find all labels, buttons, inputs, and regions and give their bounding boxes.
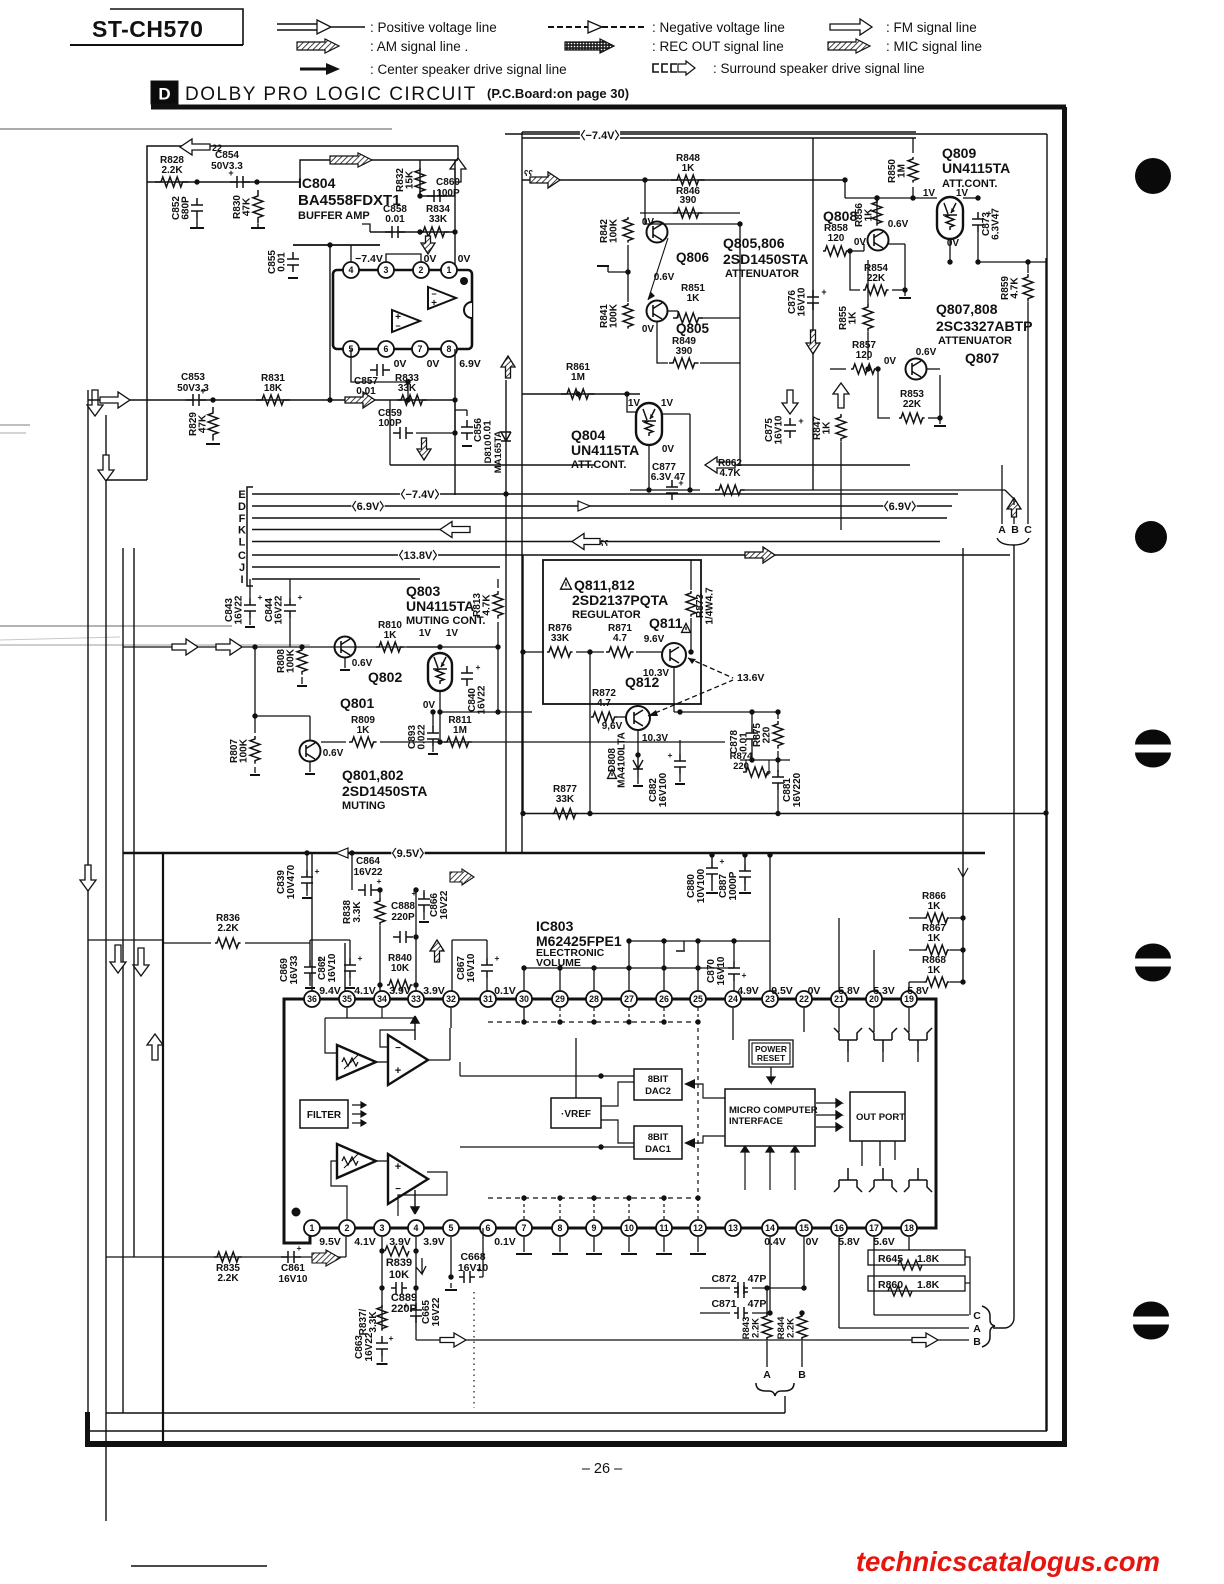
svg-text:0.6V: 0.6V bbox=[916, 347, 937, 358]
svg-text:0.4V: 0.4V bbox=[764, 1236, 786, 1248]
svg-text:+: + bbox=[412, 888, 417, 898]
svg-text:2.2K: 2.2K bbox=[786, 1318, 797, 1338]
svg-text:220: 220 bbox=[733, 761, 749, 772]
svg-text:13.6V: 13.6V bbox=[737, 672, 764, 684]
svg-text:10K: 10K bbox=[391, 963, 410, 974]
svg-text:+: + bbox=[315, 866, 320, 876]
svg-text:3: 3 bbox=[380, 1223, 385, 1233]
svg-text:8: 8 bbox=[558, 1223, 563, 1233]
svg-text:1V: 1V bbox=[628, 398, 641, 409]
svg-text:+: + bbox=[476, 662, 481, 672]
svg-text:: REC OUT signal line: : REC OUT signal line bbox=[652, 39, 784, 54]
svg-text:K: K bbox=[238, 525, 246, 537]
svg-text:22K: 22K bbox=[903, 399, 922, 410]
svg-text:IC804: IC804 bbox=[298, 175, 336, 191]
svg-text:15K: 15K bbox=[405, 170, 416, 189]
svg-text:10K: 10K bbox=[389, 1269, 409, 1281]
svg-text:D: D bbox=[158, 85, 170, 104]
svg-text:3.9V: 3.9V bbox=[423, 985, 445, 997]
svg-text:: Surround speaker drive signa: : Surround speaker drive signal line bbox=[713, 61, 925, 76]
svg-text:−: − bbox=[395, 321, 400, 331]
svg-text:ATT.CONT.: ATT.CONT. bbox=[571, 459, 626, 471]
svg-text:+: + bbox=[742, 970, 747, 980]
svg-text:1M: 1M bbox=[897, 164, 908, 178]
svg-text:+: + bbox=[377, 876, 382, 886]
svg-text:〈6.9V〉: 〈6.9V〉 bbox=[878, 500, 923, 513]
svg-text:I: I bbox=[240, 574, 243, 586]
svg-text:Q808: Q808 bbox=[823, 208, 857, 224]
svg-text:3.9V: 3.9V bbox=[389, 1236, 411, 1248]
svg-text:5: 5 bbox=[449, 1223, 454, 1233]
svg-text:27: 27 bbox=[624, 994, 634, 1004]
svg-text:1K: 1K bbox=[928, 965, 942, 976]
svg-text:6: 6 bbox=[384, 344, 389, 354]
svg-text:2.2K: 2.2K bbox=[217, 923, 239, 934]
svg-text:D: D bbox=[238, 501, 246, 513]
svg-text:11: 11 bbox=[659, 1223, 668, 1233]
svg-text:22K: 22K bbox=[867, 273, 886, 284]
svg-text:3.3K: 3.3K bbox=[352, 901, 363, 923]
svg-text:390: 390 bbox=[680, 195, 697, 206]
svg-text:IC803: IC803 bbox=[536, 918, 574, 934]
svg-text:0V: 0V bbox=[642, 324, 655, 335]
svg-text:16V10: 16V10 bbox=[716, 956, 727, 985]
svg-text:+: + bbox=[389, 1333, 394, 1343]
svg-text:5.8V: 5.8V bbox=[907, 985, 929, 997]
svg-text:16V10: 16V10 bbox=[327, 953, 338, 982]
svg-text:9.5V: 9.5V bbox=[319, 1236, 341, 1248]
svg-text:0V: 0V bbox=[806, 1236, 819, 1248]
svg-text:1.8K: 1.8K bbox=[917, 1253, 940, 1265]
svg-text:ʕʕ: ʕʕ bbox=[600, 539, 609, 548]
svg-text:2.2K: 2.2K bbox=[217, 1273, 239, 1284]
svg-text:4.7: 4.7 bbox=[597, 698, 611, 709]
svg-text:33K: 33K bbox=[429, 214, 448, 225]
svg-text:16V10: 16V10 bbox=[466, 953, 477, 982]
svg-text:Q809: Q809 bbox=[942, 145, 976, 161]
svg-text:5.8V: 5.8V bbox=[838, 985, 860, 997]
svg-text:: Negative voltage line: : Negative voltage line bbox=[652, 20, 785, 35]
svg-text:A: A bbox=[763, 1369, 771, 1381]
svg-text:1: 1 bbox=[447, 265, 452, 275]
svg-text:UN4115TA: UN4115TA bbox=[942, 160, 1010, 176]
svg-text:4.7K: 4.7K bbox=[1010, 277, 1021, 299]
svg-text:16V22: 16V22 bbox=[477, 685, 488, 714]
svg-text:L: L bbox=[239, 537, 246, 549]
svg-text:28: 28 bbox=[589, 994, 599, 1004]
svg-text:UN4115TA: UN4115TA bbox=[571, 442, 639, 458]
svg-text:4: 4 bbox=[349, 265, 354, 275]
svg-text:9.6V: 9.6V bbox=[644, 634, 665, 645]
svg-text:+: + bbox=[798, 416, 803, 426]
svg-text:220P: 220P bbox=[391, 912, 415, 923]
svg-text:1.8K: 1.8K bbox=[917, 1279, 940, 1291]
svg-text:1K: 1K bbox=[928, 901, 942, 912]
svg-text:REGULATOR: REGULATOR bbox=[572, 609, 641, 621]
svg-text:·VREF: ·VREF bbox=[561, 1109, 591, 1120]
svg-text:9.4V: 9.4V bbox=[319, 985, 341, 997]
svg-text:1K: 1K bbox=[848, 311, 859, 325]
svg-text:(P.C.Board:on page 30): (P.C.Board:on page 30) bbox=[487, 86, 629, 101]
svg-text:47P: 47P bbox=[748, 1298, 767, 1310]
svg-text:0V: 0V bbox=[884, 356, 897, 367]
svg-text:1K: 1K bbox=[864, 208, 875, 222]
svg-text:6: 6 bbox=[486, 1223, 491, 1233]
svg-text:12: 12 bbox=[693, 1223, 703, 1233]
svg-text:390: 390 bbox=[676, 346, 693, 357]
svg-text:Q805,806: Q805,806 bbox=[723, 235, 785, 251]
svg-text:B: B bbox=[1011, 524, 1019, 536]
svg-text:47K: 47K bbox=[242, 197, 253, 216]
svg-text:3.9V: 3.9V bbox=[389, 985, 411, 997]
svg-text:〈13.8V〉: 〈13.8V〉 bbox=[393, 549, 444, 562]
svg-text:4.7: 4.7 bbox=[613, 633, 627, 644]
svg-text:0.01: 0.01 bbox=[483, 420, 494, 440]
svg-text:C853: C853 bbox=[181, 372, 205, 383]
svg-text:DAC2: DAC2 bbox=[645, 1086, 671, 1097]
svg-text:220: 220 bbox=[762, 726, 773, 743]
svg-text:1V: 1V bbox=[923, 188, 936, 199]
svg-text:+: + bbox=[821, 287, 826, 297]
svg-text:10: 10 bbox=[624, 1223, 634, 1233]
svg-text:0V: 0V bbox=[662, 444, 675, 455]
svg-text:0V: 0V bbox=[427, 358, 440, 370]
svg-text:C860: C860 bbox=[436, 177, 460, 188]
svg-text:30: 30 bbox=[519, 994, 529, 1004]
svg-text:1M: 1M bbox=[571, 372, 585, 383]
svg-text:1K: 1K bbox=[822, 421, 833, 435]
svg-text:1K: 1K bbox=[682, 163, 696, 174]
svg-text:ATTENUATOR: ATTENUATOR bbox=[725, 268, 799, 280]
svg-text:18: 18 bbox=[904, 1223, 914, 1233]
svg-text:: MIC signal line: : MIC signal line bbox=[886, 39, 982, 54]
svg-text:50V3.3: 50V3.3 bbox=[177, 383, 209, 394]
svg-text:+: + bbox=[668, 750, 673, 760]
svg-text:C872: C872 bbox=[711, 1273, 736, 1285]
svg-text:C888: C888 bbox=[391, 901, 415, 912]
svg-text:+: + bbox=[358, 953, 363, 963]
svg-text:4.7K: 4.7K bbox=[482, 594, 493, 616]
svg-text:4.1V: 4.1V bbox=[354, 1236, 376, 1248]
svg-text:100P: 100P bbox=[378, 418, 402, 429]
svg-text:+: + bbox=[298, 592, 303, 602]
svg-text:+: + bbox=[495, 953, 500, 963]
svg-text:0.6V: 0.6V bbox=[888, 219, 909, 230]
svg-text:36: 36 bbox=[307, 994, 317, 1004]
svg-text:0V: 0V bbox=[808, 985, 821, 997]
svg-text:26: 26 bbox=[659, 994, 669, 1004]
svg-text:ATT.CONT.: ATT.CONT. bbox=[942, 178, 997, 190]
svg-text:5.8V: 5.8V bbox=[838, 1236, 860, 1248]
svg-text:+: + bbox=[404, 1300, 409, 1310]
svg-text:32: 32 bbox=[446, 994, 456, 1004]
svg-text:C864: C864 bbox=[356, 856, 380, 867]
svg-text:33: 33 bbox=[411, 994, 421, 1004]
svg-text:1K: 1K bbox=[928, 933, 942, 944]
svg-text:F: F bbox=[239, 513, 246, 525]
svg-text:100K: 100K bbox=[609, 303, 620, 328]
svg-text:2SC3327ABTP: 2SC3327ABTP bbox=[936, 318, 1033, 334]
svg-text:16V10: 16V10 bbox=[458, 1262, 489, 1274]
svg-text:31: 31 bbox=[483, 994, 493, 1004]
svg-text:6.3V 47: 6.3V 47 bbox=[651, 472, 686, 483]
svg-text:8BIT: 8BIT bbox=[648, 1132, 669, 1143]
svg-text:1: 1 bbox=[310, 1223, 315, 1233]
svg-text:5.3V: 5.3V bbox=[873, 985, 895, 997]
svg-text:33K: 33K bbox=[551, 633, 570, 644]
svg-text:−: − bbox=[395, 1043, 401, 1054]
svg-text:MUTING: MUTING bbox=[342, 800, 385, 812]
svg-text:MICRO COMPUTER: MICRO COMPUTER bbox=[729, 1105, 818, 1116]
svg-text:Q806: Q806 bbox=[676, 250, 710, 265]
svg-text:A: A bbox=[998, 524, 1006, 536]
svg-text:50V3.3: 50V3.3 bbox=[211, 161, 243, 172]
svg-text:16V10: 16V10 bbox=[279, 1274, 308, 1285]
svg-text:16V22: 16V22 bbox=[439, 890, 450, 919]
svg-text:0.01: 0.01 bbox=[739, 732, 750, 752]
svg-text:Q812: Q812 bbox=[625, 674, 659, 690]
svg-text:4.1V: 4.1V bbox=[354, 985, 376, 997]
svg-text:47P: 47P bbox=[748, 1273, 767, 1285]
svg-text:120: 120 bbox=[856, 350, 873, 361]
svg-text:16V22: 16V22 bbox=[234, 595, 245, 624]
svg-text:2: 2 bbox=[419, 265, 424, 275]
svg-text:C871: C871 bbox=[711, 1298, 736, 1310]
svg-text:C: C bbox=[1024, 524, 1032, 536]
svg-text:+: + bbox=[431, 298, 437, 309]
svg-text:RESET: RESET bbox=[757, 1053, 786, 1063]
svg-text:Q811,812: Q811,812 bbox=[574, 577, 635, 593]
svg-text:Q807: Q807 bbox=[965, 350, 999, 366]
svg-text:16V22: 16V22 bbox=[431, 1297, 442, 1326]
svg-text:DOLBY PRO LOGIC CIRCUIT: DOLBY PRO LOGIC CIRCUIT bbox=[185, 84, 477, 105]
svg-text:7: 7 bbox=[418, 344, 423, 354]
svg-text:1K: 1K bbox=[357, 725, 371, 736]
svg-text:9,6V: 9,6V bbox=[602, 721, 623, 732]
svg-text:Q802: Q802 bbox=[368, 669, 402, 685]
svg-text:10.3V: 10.3V bbox=[642, 733, 668, 744]
svg-text:4: 4 bbox=[414, 1223, 419, 1233]
svg-text:0.022: 0.022 bbox=[417, 724, 428, 749]
svg-text:10V100: 10V100 bbox=[696, 868, 707, 903]
svg-text:16V10: 16V10 bbox=[797, 287, 808, 316]
svg-text:– 26 –: – 26 – bbox=[582, 1461, 623, 1477]
svg-text:0.01: 0.01 bbox=[385, 214, 405, 225]
svg-text:1K: 1K bbox=[687, 293, 701, 304]
svg-text:INTERFACE: INTERFACE bbox=[729, 1116, 783, 1127]
svg-text:−7.4V: −7.4V bbox=[355, 253, 383, 265]
svg-text:0.1V: 0.1V bbox=[494, 985, 516, 997]
svg-text:2SD1450STA: 2SD1450STA bbox=[723, 251, 808, 267]
svg-text:1V: 1V bbox=[661, 398, 674, 409]
svg-text:13: 13 bbox=[728, 1223, 738, 1233]
svg-text:A: A bbox=[973, 1323, 981, 1335]
svg-text:UN4115TA: UN4115TA bbox=[406, 598, 474, 614]
svg-text:technicscatalogus.com: technicscatalogus.com bbox=[856, 1546, 1160, 1577]
svg-text:MA165TA: MA165TA bbox=[493, 431, 504, 474]
svg-text:+: + bbox=[395, 1065, 401, 1077]
svg-text:0V: 0V bbox=[394, 358, 407, 370]
svg-text:7: 7 bbox=[522, 1223, 527, 1233]
svg-text:0V: 0V bbox=[642, 217, 655, 228]
svg-text:16V10: 16V10 bbox=[774, 415, 785, 444]
svg-text:0V: 0V bbox=[458, 253, 471, 265]
svg-text:8: 8 bbox=[447, 344, 452, 354]
svg-text:Q805: Q805 bbox=[676, 321, 710, 336]
svg-text:47K: 47K bbox=[198, 414, 209, 433]
svg-text:〈−7.4V〉: 〈−7.4V〉 bbox=[574, 129, 625, 142]
svg-text:C: C bbox=[973, 1310, 981, 1322]
svg-text:+: + bbox=[228, 168, 233, 178]
svg-text:1M: 1M bbox=[453, 725, 467, 736]
svg-text:C861: C861 bbox=[281, 1263, 305, 1274]
svg-text:9.5V: 9.5V bbox=[771, 985, 793, 997]
svg-text:R839: R839 bbox=[386, 1257, 412, 1269]
svg-text:2SD2137PQTA: 2SD2137PQTA bbox=[572, 592, 668, 608]
svg-text:E: E bbox=[238, 489, 245, 501]
svg-text:Q811: Q811 bbox=[649, 615, 683, 631]
svg-text:10V470: 10V470 bbox=[286, 864, 297, 899]
svg-text:9: 9 bbox=[592, 1223, 597, 1233]
svg-text:3: 3 bbox=[384, 265, 389, 275]
svg-text:Q801: Q801 bbox=[340, 695, 374, 711]
svg-text:2: 2 bbox=[345, 1223, 350, 1233]
svg-text:1/4W4.7: 1/4W4.7 bbox=[705, 587, 716, 625]
svg-text:17: 17 bbox=[869, 1223, 879, 1233]
svg-text:0.01: 0.01 bbox=[356, 386, 376, 397]
svg-text:16V22: 16V22 bbox=[364, 1332, 375, 1361]
svg-text:100K: 100K bbox=[286, 648, 297, 673]
svg-text:4.7K: 4.7K bbox=[719, 468, 741, 479]
svg-text:25: 25 bbox=[693, 994, 703, 1004]
svg-text:Q804: Q804 bbox=[571, 427, 605, 443]
svg-text:: AM signal line .: : AM signal line . bbox=[370, 39, 468, 54]
svg-text:2SD1450STA: 2SD1450STA bbox=[342, 783, 427, 799]
svg-text:2.2K: 2.2K bbox=[161, 165, 183, 176]
svg-text:: FM signal line: : FM signal line bbox=[886, 20, 977, 35]
svg-text:0V: 0V bbox=[947, 238, 960, 249]
svg-text:〈−7.4V〉: 〈−7.4V〉 bbox=[394, 488, 445, 501]
svg-text:0.1V: 0.1V bbox=[494, 1236, 516, 1248]
svg-text:0V: 0V bbox=[423, 700, 436, 711]
svg-text:29: 29 bbox=[555, 994, 565, 1004]
svg-text:BUFFER AMP: BUFFER AMP bbox=[298, 210, 370, 222]
svg-text:: Positive voltage line: : Positive voltage line bbox=[370, 20, 497, 35]
svg-text:1V: 1V bbox=[446, 628, 459, 639]
svg-text:0.01: 0.01 bbox=[277, 252, 288, 272]
svg-text:DAC1: DAC1 bbox=[645, 1144, 672, 1155]
svg-text:100K: 100K bbox=[609, 218, 620, 243]
svg-text:680P: 680P bbox=[181, 196, 192, 220]
svg-text:Q801,802: Q801,802 bbox=[342, 767, 404, 783]
svg-text:FILTER: FILTER bbox=[307, 1110, 342, 1121]
svg-text:: Center speaker drive signal: : Center speaker drive signal line bbox=[370, 62, 567, 77]
svg-text:B: B bbox=[798, 1369, 806, 1381]
svg-text:120: 120 bbox=[828, 233, 845, 244]
svg-text:1K: 1K bbox=[384, 630, 398, 641]
svg-text:−: − bbox=[395, 1184, 401, 1195]
svg-text:18K: 18K bbox=[264, 383, 283, 394]
svg-text:OUT PORT: OUT PORT bbox=[856, 1112, 905, 1123]
svg-text:6.9V: 6.9V bbox=[459, 358, 481, 370]
svg-text:3.9V: 3.9V bbox=[423, 1236, 445, 1248]
svg-text:ʕʕ: ʕʕ bbox=[524, 169, 533, 178]
svg-text:16V220: 16V220 bbox=[792, 772, 803, 807]
svg-text:35: 35 bbox=[342, 994, 352, 1004]
svg-text:100K: 100K bbox=[239, 738, 250, 763]
svg-text:C854: C854 bbox=[215, 150, 239, 161]
svg-text:2.2K: 2.2K bbox=[751, 1318, 762, 1338]
svg-text:100P: 100P bbox=[436, 188, 460, 199]
svg-text:Q807,808: Q807,808 bbox=[936, 301, 998, 317]
svg-text:16V33: 16V33 bbox=[289, 955, 300, 984]
svg-text:1V: 1V bbox=[419, 628, 432, 639]
svg-text:+: + bbox=[720, 856, 725, 866]
svg-text:16V22: 16V22 bbox=[274, 595, 285, 624]
svg-text:ST-CH570: ST-CH570 bbox=[92, 16, 203, 42]
svg-text:0.6V: 0.6V bbox=[352, 658, 373, 669]
svg-text:14: 14 bbox=[765, 1223, 775, 1233]
svg-text:0V: 0V bbox=[424, 253, 437, 265]
svg-text:4.9V: 4.9V bbox=[737, 985, 759, 997]
svg-text:ATTENUATOR: ATTENUATOR bbox=[938, 335, 1012, 347]
svg-text:+: + bbox=[297, 1243, 302, 1253]
svg-text:〈6.9V〉: 〈6.9V〉 bbox=[346, 500, 391, 513]
svg-text:+: + bbox=[395, 1161, 401, 1173]
svg-text:〈9.5V〉: 〈9.5V〉 bbox=[386, 847, 431, 860]
svg-text:1000P: 1000P bbox=[728, 871, 739, 900]
svg-text:33K: 33K bbox=[556, 794, 575, 805]
svg-text:3.3K: 3.3K bbox=[368, 1311, 379, 1333]
svg-text:+: + bbox=[258, 592, 263, 602]
svg-text:16V100: 16V100 bbox=[658, 772, 669, 807]
svg-text:C: C bbox=[238, 550, 246, 562]
svg-text:J: J bbox=[239, 562, 245, 574]
svg-text:6.3V47: 6.3V47 bbox=[991, 208, 1002, 240]
svg-text:MA4100LTA: MA4100LTA bbox=[617, 732, 628, 788]
svg-text:8BIT: 8BIT bbox=[648, 1074, 669, 1085]
svg-text:B: B bbox=[973, 1336, 981, 1348]
svg-text:5.6V: 5.6V bbox=[873, 1236, 895, 1248]
svg-text:16: 16 bbox=[834, 1223, 844, 1233]
svg-text:0.6V: 0.6V bbox=[323, 748, 344, 759]
svg-text:15: 15 bbox=[799, 1223, 809, 1233]
svg-text:34: 34 bbox=[377, 994, 387, 1004]
svg-text:Q803: Q803 bbox=[406, 583, 440, 599]
svg-text:+: + bbox=[766, 768, 771, 778]
